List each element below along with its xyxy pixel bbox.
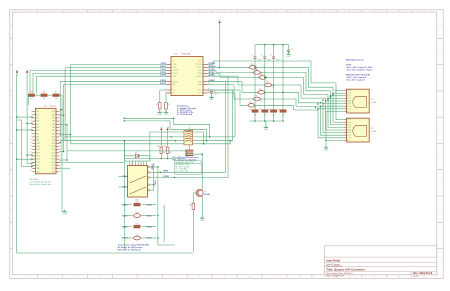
net label REL2 xyxy=(123,187,129,189)
wire resistor bus gnd xyxy=(265,121,267,127)
wire net D long xyxy=(67,151,186,154)
wires IC1 right pins xyxy=(59,110,70,169)
svg-text:D4 - TX TXD (CD): D4 - TX TXD (CD) xyxy=(176,171,189,173)
svg-text:R6: R6 xyxy=(43,91,45,93)
net label K1 c xyxy=(163,171,169,173)
svg-text:C4: C4 xyxy=(291,49,293,51)
svg-text:PB8: PB8 xyxy=(52,136,55,138)
svg-text:100n: 100n xyxy=(257,59,261,61)
svg-text:R5: R5 xyxy=(30,91,32,93)
wire vertical rail v273.6 xyxy=(273,45,275,110)
net label K1 b xyxy=(155,179,157,185)
wire supply top xyxy=(219,25,221,68)
wire supply left a xyxy=(16,74,18,76)
junction coil xyxy=(186,154,203,155)
resistor R6 xyxy=(41,91,47,100)
svg-text:R12: R12 xyxy=(163,146,166,148)
svg-text:PB6: PB6 xyxy=(52,130,55,132)
label T1 xyxy=(204,191,210,196)
svg-text:13: 13 xyxy=(323,11,325,13)
svg-text:2: 2 xyxy=(49,277,50,279)
svg-text:B: B xyxy=(11,51,12,53)
wire column left rail xyxy=(124,205,132,238)
op-amp U2 (IC2 MAX232 level converter) xyxy=(165,57,210,96)
svg-text:SJ3: SJ3 xyxy=(260,74,263,76)
svg-text:SJ1: SJ1 xyxy=(250,64,253,66)
wire K1 pin2 xyxy=(151,82,226,173)
svg-text:X1: X1 xyxy=(371,99,373,101)
diode D2 with wire xyxy=(124,154,149,158)
connector X1 xyxy=(345,89,377,113)
supply +5V near R12 xyxy=(166,127,170,131)
wire rail x21.5 xyxy=(17,120,22,167)
svg-text:Ivan Polák: Ivan Polák xyxy=(326,258,340,262)
wire R9 xyxy=(165,93,168,112)
net label K1 a xyxy=(152,163,154,169)
wire din2 xyxy=(124,121,206,141)
svg-text:T2OUT: T2OUT xyxy=(196,67,202,69)
wire C5 xyxy=(208,90,212,97)
svg-text:4k7: 4k7 xyxy=(169,152,172,154)
capacitor C3 xyxy=(269,54,279,61)
wire gnd bundle xyxy=(326,111,345,147)
resistor R13 xyxy=(189,203,195,209)
svg-text:RXDR: RXDR xyxy=(163,176,169,178)
wire net A long xyxy=(64,93,235,137)
svg-text:CONN9: CONN9 xyxy=(371,131,377,133)
wire T1 base xyxy=(193,192,198,194)
resistor R12 xyxy=(163,146,172,154)
wire supply left b xyxy=(26,74,28,78)
solder jumper SJ6 xyxy=(252,96,261,103)
junction v273.6 xyxy=(273,84,274,85)
wire vertical rail v264.8 xyxy=(264,45,266,110)
wire net E long xyxy=(56,162,124,164)
svg-text:NO line RT for TX/LP (out): NO line RT for TX/LP (out) xyxy=(118,248,141,251)
svg-text:GND: GND xyxy=(210,99,215,101)
wire rail x63.6 xyxy=(63,85,65,151)
svg-text:R4: R4 xyxy=(277,109,279,111)
svg-text:100n: 100n xyxy=(267,59,271,61)
svg-text:100n: 100n xyxy=(214,93,218,95)
svg-text:C1: C1 xyxy=(251,54,253,56)
svg-text:12: 12 xyxy=(298,11,300,13)
wire caps top rail xyxy=(255,44,289,46)
svg-text:T3OUT: T3OUT xyxy=(196,76,202,78)
svg-text:R7: R7 xyxy=(55,91,57,93)
junction column xyxy=(124,204,159,239)
svg-text:PB1: PB1 xyxy=(52,114,55,116)
svg-text:PB12: PB12 xyxy=(51,149,55,151)
label IC2 xyxy=(174,54,190,56)
wire R11 leads xyxy=(160,132,162,159)
svg-text:TXD2: TXD2 xyxy=(155,179,157,185)
net label REL1 xyxy=(123,176,129,178)
svg-text:Sheet: 1/1 Sheet R2 1/1: Sheet: 1/1 Sheet R2 1/1 xyxy=(326,275,344,278)
svg-text:10: 10 xyxy=(249,11,251,13)
wire relay drive loop xyxy=(124,141,149,161)
wire rail x33 xyxy=(32,73,34,93)
svg-text:HT6540B: HT6540B xyxy=(181,54,191,56)
svg-text:SJ5: SJ5 xyxy=(259,89,262,91)
svg-text:100n: 100n xyxy=(276,59,280,61)
svg-text:PB11: PB11 xyxy=(51,146,55,148)
resistor R2 xyxy=(259,109,268,116)
svg-text:-5V to -15V = Logical 1: -5V to -15V = Logical 1 xyxy=(346,78,365,81)
svg-text:5: 5 xyxy=(124,11,125,13)
relay coil core xyxy=(185,150,193,157)
svg-text:4: 4 xyxy=(99,11,100,13)
svg-text:RXD2: RXD2 xyxy=(152,163,154,169)
svg-text:R1: R1 xyxy=(249,109,251,111)
note DIN switches xyxy=(177,105,196,117)
svg-text:K1: K1 xyxy=(131,163,133,165)
label K1 xyxy=(131,163,139,202)
svg-text:C1+: C1+ xyxy=(198,93,201,95)
svg-text:PB19: PB19 xyxy=(51,171,55,173)
wire resistor bus xyxy=(250,112,284,121)
svg-text:89C52: 89C52 xyxy=(50,105,57,107)
resistor R15 xyxy=(122,223,153,228)
svg-text:PB0: PB0 xyxy=(52,111,55,113)
junctions IC1 rails xyxy=(60,109,72,161)
microcontroller U1 (IC1, 40-pin) xyxy=(30,108,61,174)
svg-text:9: 9 xyxy=(224,277,225,279)
svg-text:20: 20 xyxy=(30,171,32,173)
junction din3 xyxy=(203,143,204,144)
svg-text:R2: R2 xyxy=(259,109,261,111)
ground R8 xyxy=(158,110,163,116)
wire rail x27.1 xyxy=(26,78,28,163)
wire R8 xyxy=(160,90,167,112)
ground below IC1 xyxy=(63,210,68,216)
solder jumper SJ3 xyxy=(122,212,153,217)
svg-text:PB3: PB3 xyxy=(52,121,55,123)
svg-text:PB17: PB17 xyxy=(51,165,55,167)
solder jumper SJ7 xyxy=(247,102,256,109)
svg-text:11: 11 xyxy=(274,11,276,13)
net label K1 d xyxy=(163,176,169,178)
svg-text:F: F xyxy=(440,156,441,158)
junction v264.8 xyxy=(264,77,265,78)
svg-text:10k: 10k xyxy=(189,205,192,207)
svg-text:R1OUT: R1OUT xyxy=(173,70,179,72)
svg-text:R15: R15 xyxy=(136,223,139,225)
wire rail x65.1 xyxy=(64,68,66,141)
ground R9 xyxy=(164,110,169,116)
wire rail x70.4 xyxy=(69,65,71,144)
wire T1 emitter xyxy=(201,197,203,218)
relay coil K1 winding xyxy=(184,130,193,145)
capacitor C2 xyxy=(261,54,271,61)
svg-text:12: 12 xyxy=(30,145,32,147)
wires K1 left pins xyxy=(119,177,125,188)
junction relay feeds xyxy=(124,140,169,159)
junctions IC1 left pins xyxy=(31,116,32,167)
svg-text:R8: R8 xyxy=(156,104,158,106)
svg-text:16: 16 xyxy=(398,277,400,279)
svg-text:10k: 10k xyxy=(43,98,46,100)
svg-text:1: 1 xyxy=(24,277,25,279)
svg-text:PB18: PB18 xyxy=(51,168,55,170)
svg-text:PB14: PB14 xyxy=(51,155,55,157)
solder jumper SJ4 xyxy=(122,235,153,240)
note level shift xyxy=(173,156,199,161)
svg-text:RS232 Signal Levels: RS232 Signal Levels xyxy=(346,59,363,61)
wires IC1 left pins xyxy=(17,117,32,166)
wire net S5 xyxy=(208,76,345,130)
svg-text:4 = TX DX (belne): 4 = TX DX (belne) xyxy=(177,113,192,116)
resistor R9 xyxy=(165,103,170,109)
resistor R5 xyxy=(28,91,34,100)
svg-text:GND: GND xyxy=(164,114,169,116)
svg-text:TXDR: TXDR xyxy=(163,171,169,173)
svg-text:13: 13 xyxy=(30,148,32,150)
svg-text:10k: 10k xyxy=(55,98,58,100)
svg-text:3: 3 xyxy=(74,277,75,279)
solder jumper SJ2 xyxy=(252,69,261,76)
svg-text:Ve 1/1: Ve 1/1 xyxy=(413,276,418,278)
svg-text:10: 10 xyxy=(30,139,32,141)
wire R12 leads xyxy=(167,132,169,159)
wire net S1 xyxy=(208,61,345,120)
svg-text:14: 14 xyxy=(348,277,350,279)
relay contacts K1 xyxy=(124,164,151,197)
capacitor C1 xyxy=(251,54,261,61)
capacitor C5 xyxy=(210,91,217,96)
svg-text:X2: X2 xyxy=(371,128,373,130)
svg-text:R11: R11 xyxy=(157,146,160,148)
svg-text:GND: GND xyxy=(200,220,205,222)
junction gnd bundle xyxy=(325,140,326,141)
svg-text:Rev: 2024-05-22: Rev: 2024-05-22 xyxy=(413,272,433,275)
wire long vertical x124.4 xyxy=(123,141,125,250)
svg-text:GND: GND xyxy=(264,129,269,131)
svg-text:BC547: BC547 xyxy=(204,193,210,196)
wire coil bottom to transistor xyxy=(186,154,202,190)
svg-text:11: 11 xyxy=(274,277,276,279)
svg-text:17: 17 xyxy=(423,277,425,279)
wires K1 top pins xyxy=(130,161,147,164)
transistor T1 xyxy=(196,189,203,197)
wire rail x157.9 xyxy=(158,167,175,245)
svg-text:19: 19 xyxy=(30,167,32,169)
svg-text:GND: GND xyxy=(287,56,292,58)
solder jumper SJ4 xyxy=(264,82,273,89)
wire rail x30 xyxy=(29,71,31,94)
svg-text:4: 4 xyxy=(99,277,100,279)
svg-text:8: 8 xyxy=(199,277,200,279)
solder jumper SJ1 xyxy=(248,64,257,71)
ground C4 xyxy=(286,52,291,58)
svg-text:C2: C2 xyxy=(261,54,263,56)
junction caps rail xyxy=(264,44,284,45)
svg-text:High = Switch (mode) start: High = Switch (mode) start xyxy=(30,183,52,186)
svg-text:F: F xyxy=(11,156,12,158)
note below IC1 xyxy=(30,179,52,186)
svg-text:-3V to -15V = Logical 1 = Spac: -3V to -15V = Logical 1 = Space xyxy=(346,68,372,71)
svg-text:15: 15 xyxy=(373,11,375,13)
svg-text:T1: T1 xyxy=(204,191,206,193)
svg-text:V+: V+ xyxy=(173,90,175,92)
ground T1 emitter xyxy=(200,216,205,222)
svg-text:6: 6 xyxy=(149,277,150,279)
svg-text:Title: Quasar V.24 Converter: Title: Quasar V.24 Converter xyxy=(326,268,365,272)
wire rail x153.5 xyxy=(153,163,155,190)
svg-text:10: 10 xyxy=(208,83,210,85)
resistor R3 xyxy=(268,109,277,116)
junction v255 xyxy=(254,67,255,68)
supply +5V left b xyxy=(26,70,30,74)
svg-text:E: E xyxy=(439,130,440,132)
wire column right rail xyxy=(142,205,156,238)
solder jumper SJ3 xyxy=(258,74,267,81)
svg-text:PB9: PB9 xyxy=(52,140,55,142)
title block xyxy=(324,246,437,278)
ground C5 xyxy=(209,95,214,101)
wire net S3 xyxy=(208,71,345,125)
svg-text:15: 15 xyxy=(373,277,375,279)
svg-text:CONN9: CONN9 xyxy=(371,102,377,104)
solder jumper SJ5 xyxy=(257,89,266,96)
wire K1 pin5 xyxy=(151,189,154,191)
junction resistor bus xyxy=(254,120,283,121)
wires resistors above IC1 xyxy=(28,95,62,109)
svg-text:5: 5 xyxy=(124,277,125,279)
junction K1 wires xyxy=(153,166,175,185)
svg-text:8: 8 xyxy=(165,89,166,91)
wire bottom rail xyxy=(17,252,194,254)
svg-text:Size: (Custom) ? Date: 2024-: Size: (Custom) ? Date: 2024-05-22 xyxy=(326,272,352,275)
svg-text:D2: D2 xyxy=(135,152,137,154)
wire rail x62 xyxy=(61,110,63,212)
wire din3 xyxy=(150,132,204,161)
wire net S6 xyxy=(208,82,345,133)
svg-text:jp: jp xyxy=(265,79,267,81)
svg-text:R3: R3 xyxy=(268,109,270,111)
wire base resistor xyxy=(192,193,194,252)
svg-text:12: 12 xyxy=(298,277,300,279)
wire net S4 xyxy=(208,73,345,127)
note right of K1 xyxy=(176,161,194,173)
svg-text:PB10: PB10 xyxy=(51,143,55,145)
svg-text:6: 6 xyxy=(149,11,150,13)
svg-text:GND: GND xyxy=(324,150,329,152)
wire rail x67 xyxy=(66,125,68,160)
connector X2 xyxy=(345,118,377,142)
wire bus to IC2 left pins xyxy=(30,65,167,77)
wire across relay area xyxy=(124,158,185,160)
svg-text:PB16: PB16 xyxy=(51,162,55,164)
resistor R7 xyxy=(53,91,59,100)
wire vertical rail v255 xyxy=(254,45,256,110)
svg-text:SJ3: SJ3 xyxy=(136,212,139,214)
junction v283 xyxy=(282,92,283,93)
svg-text:B: B xyxy=(439,51,440,53)
ground bundle xyxy=(324,146,329,152)
junctions bundle xyxy=(315,94,334,108)
wire net S8 xyxy=(208,90,345,138)
svg-text:GND: GND xyxy=(158,114,163,116)
svg-text:C3: C3 xyxy=(269,54,271,56)
wire rail x36.5 xyxy=(36,76,38,93)
wire coil top xyxy=(188,127,190,149)
wire net S7 xyxy=(208,85,345,136)
svg-text:2: 2 xyxy=(49,11,50,13)
svg-text:SJ4: SJ4 xyxy=(136,235,139,237)
svg-text:E: E xyxy=(11,130,12,132)
svg-text:1: 1 xyxy=(24,11,25,13)
net labels IC2 left xyxy=(160,63,167,85)
label IC1 xyxy=(44,105,57,107)
wire left main rail xyxy=(16,75,18,254)
supply +5V near R11 xyxy=(160,127,164,131)
svg-text:17: 17 xyxy=(423,11,425,13)
svg-text:4k7: 4k7 xyxy=(163,152,166,154)
junction coil taps xyxy=(171,118,177,142)
ground resistor bus xyxy=(264,125,269,131)
svg-text:C5: C5 xyxy=(214,91,216,93)
wire C4 xyxy=(288,45,290,54)
label D2 xyxy=(135,152,137,154)
resistor R1 xyxy=(249,109,258,116)
svg-text:7: 7 xyxy=(174,11,175,13)
note RS232 levels xyxy=(346,59,372,81)
svg-text:PB13: PB13 xyxy=(51,152,55,154)
svg-text:9: 9 xyxy=(224,11,225,13)
capacitor C4 xyxy=(287,49,293,51)
svg-text:13: 13 xyxy=(323,277,325,279)
note jumper bottom xyxy=(118,243,150,251)
svg-text:14: 14 xyxy=(348,11,350,13)
svg-text:PB5: PB5 xyxy=(52,127,55,129)
svg-text:PB2: PB2 xyxy=(52,117,55,119)
wire din1 xyxy=(124,118,209,137)
legend box xyxy=(175,161,202,174)
junction din1 xyxy=(124,118,211,138)
svg-text:8: 8 xyxy=(199,11,200,13)
resistor R11 xyxy=(157,146,166,154)
svg-text:PB7: PB7 xyxy=(52,133,55,135)
svg-text:GND: GND xyxy=(63,213,68,215)
resistor R14 xyxy=(122,201,153,206)
wire K1 pin4 xyxy=(151,184,154,186)
supply +5V top xyxy=(218,20,222,24)
svg-text:SJ7: SJ7 xyxy=(249,102,252,104)
wire net C long xyxy=(70,141,230,144)
wire net B long xyxy=(60,90,232,141)
junction din2 xyxy=(124,120,208,141)
svg-text:T1OUT: T1OUT xyxy=(196,64,202,66)
svg-text:3: 3 xyxy=(74,11,75,13)
svg-text:7: 7 xyxy=(174,277,175,279)
wire x2 pin9 xyxy=(326,139,345,141)
wire rail x60.2 xyxy=(59,82,61,137)
junction net C xyxy=(230,140,231,141)
wire vertical rail v283 xyxy=(282,45,284,110)
svg-text:16: 16 xyxy=(398,11,400,13)
svg-text:In: In xyxy=(173,61,174,63)
wire K1 pin1 xyxy=(151,166,158,168)
supply +5V left a xyxy=(15,70,19,74)
wire net S2 xyxy=(208,67,345,122)
svg-text:jp: jp xyxy=(271,87,273,89)
svg-text:jp: jp xyxy=(259,101,261,103)
svg-text:PB4: PB4 xyxy=(52,124,55,126)
resistor R8 xyxy=(156,103,161,109)
svg-text:10k: 10k xyxy=(30,98,33,100)
svg-text:R3OUT: R3OUT xyxy=(173,81,179,83)
